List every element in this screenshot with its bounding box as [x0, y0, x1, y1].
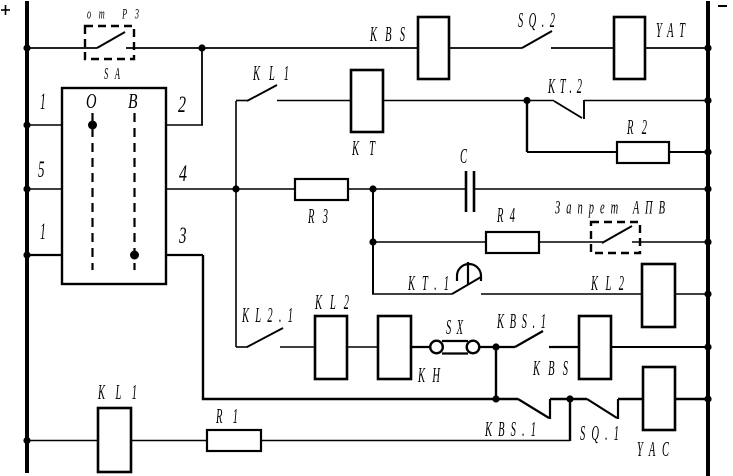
- wire rail4 to R4: [373, 241, 486, 243]
- wire KBS.1 to SQ.1: [550, 398, 587, 400]
- wire R2 to right bus: [669, 151, 707, 153]
- wire rail8 bus to KL1 coil: [29, 440, 98, 442]
- node rail1/right bus: [704, 44, 711, 51]
- wire R1 to riser x570: [261, 440, 570, 442]
- node rail7 x496: [492, 395, 499, 402]
- node R2/right bus: [704, 148, 711, 155]
- relay coil KBS: [579, 316, 611, 379]
- svg-text:2: 2: [178, 92, 186, 117]
- node rail5/right bus: [704, 290, 711, 297]
- node terminal1/left bus: [23, 121, 30, 128]
- wire rail1 SQ.2 to YAT: [551, 47, 614, 49]
- wire SQ.1 to YAC: [618, 398, 643, 400]
- plus terminal label: [1, 5, 10, 15]
- node rail7/right bus: [704, 395, 711, 402]
- wire terminal3 drop x203: [202, 255, 204, 399]
- wire drop x496 rail6 to rail7: [495, 347, 497, 399]
- switch "от Р3" dashed box: [85, 26, 134, 59]
- wire R2 branch drop x527: [526, 101, 528, 153]
- minus terminal label: [718, 5, 727, 7]
- svg-text:YAC: YAC: [637, 437, 670, 461]
- svg-text:1: 1: [40, 219, 46, 244]
- node rail1/left bus: [23, 44, 30, 51]
- wire rail3 SA4 to R3: [166, 188, 295, 190]
- svg-text:О: О: [86, 89, 97, 113]
- SA contact dot O: [88, 121, 97, 130]
- relay coil KL1: [98, 408, 131, 472]
- contact KL2.1: [236, 328, 283, 347]
- node terminal5/left bus: [23, 185, 30, 192]
- svg-text:KL2: KL2: [590, 271, 624, 295]
- relay coil KBS (top): [418, 17, 449, 79]
- relay coil KH: [378, 316, 411, 379]
- wire C to right bus: [474, 188, 707, 190]
- svg-text:KT.2: KT.2: [547, 74, 582, 98]
- relay coil KL2 (left): [315, 316, 347, 379]
- node rail4 branch: [369, 238, 376, 245]
- svg-text:1: 1: [40, 89, 46, 114]
- resistor R4: [486, 232, 539, 253]
- wire KL2.1 to KL2 coil: [280, 346, 315, 348]
- wire SA terminal 5: [29, 188, 62, 190]
- switch SA box: [62, 88, 166, 284]
- node lower terminal1/left bus: [23, 251, 30, 258]
- wire rail7 left segment: [202, 398, 518, 400]
- wire KBS to right bus: [611, 346, 707, 348]
- wire SA terminal 2: [166, 124, 203, 126]
- wire SA terminal 3: [166, 254, 203, 256]
- wire SA terminal 1 top: [27, 124, 62, 126]
- wire KT.2 to right bus: [584, 100, 707, 102]
- wire rail1 mid segment: [126, 47, 418, 49]
- contact SQ.2 blade: [522, 31, 552, 48]
- svg-text:KL2: KL2: [314, 290, 349, 314]
- electromagnet coil YAC: [643, 367, 675, 430]
- wire KT.1 to KL2 coil: [481, 293, 642, 295]
- left bus (+): [25, 1, 29, 473]
- wire riser x570 rail8 to rail7: [569, 399, 571, 441]
- node KT.2 branch: [523, 97, 530, 104]
- wire R2 left: [527, 151, 617, 153]
- relay coil KT: [351, 70, 383, 132]
- wire R4 to Запрет АПВ: [539, 241, 603, 243]
- node rail8/left bus: [23, 437, 30, 444]
- contact SQ.1 (NC): [587, 399, 618, 419]
- svg-text:4: 4: [179, 161, 187, 186]
- wire KL1 to KT coil: [277, 100, 351, 102]
- connector SX: [430, 341, 479, 354]
- node rail6 x496: [492, 343, 499, 350]
- wire YAC to right bus: [675, 398, 707, 400]
- wire KL1 riser x236: [235, 101, 237, 347]
- svg-text:KBS: KBS: [532, 356, 568, 380]
- wire drop x373 rail3 to rail5: [372, 189, 374, 294]
- node rail3 x236: [232, 185, 239, 192]
- wire KT to KT.2: [383, 100, 554, 102]
- wire terminal2 riser x202: [201, 48, 203, 125]
- wire SX to junction: [480, 346, 515, 348]
- wire SA terminal 1 bottom: [29, 254, 62, 256]
- SA position O dashed line: [91, 113, 93, 270]
- node rail1 x202 junction: [198, 44, 205, 51]
- wire Запрет АПВ to right bus: [632, 241, 707, 243]
- SA position B dashed line: [133, 113, 135, 270]
- contact KT.1 (time-delay): [452, 262, 481, 294]
- wire rail1 YAT to right bus: [645, 47, 707, 49]
- electromagnet coil YAT: [614, 17, 645, 79]
- relay coil KL2 (right): [642, 264, 675, 327]
- node rail4/right bus: [704, 238, 711, 245]
- capacitor C: [466, 171, 474, 212]
- node rail6/right bus: [704, 343, 711, 350]
- node rail3/right bus: [704, 185, 711, 192]
- node rail2/right bus: [704, 97, 711, 104]
- SA contact dot B: [130, 251, 139, 260]
- wire R3 to C: [348, 188, 466, 190]
- switch Запрет АПВ dashed box: [591, 222, 640, 253]
- wire KBS.1 to KBS coil: [549, 346, 579, 348]
- svg-text:YAT: YAT: [656, 18, 686, 42]
- wire KH to SX: [411, 346, 431, 348]
- resistor R1: [207, 430, 261, 451]
- node rail7 x570: [566, 395, 573, 402]
- svg-text:3: 3: [178, 223, 186, 248]
- resistor R2: [617, 142, 669, 163]
- wire rail5 left stub: [372, 293, 452, 295]
- svg-text:KL1: KL1: [252, 61, 289, 85]
- wire KL2 to KH: [347, 346, 378, 348]
- contact KT.2 (NC): [554, 100, 584, 119]
- svg-text:KBS: KBS: [369, 22, 405, 46]
- wire KL2 to right bus: [675, 293, 707, 295]
- contact KL1: [236, 85, 277, 101]
- wire rail1 left segment: [29, 47, 97, 49]
- node rail3 x373: [369, 185, 376, 192]
- svg-text:C: C: [460, 144, 468, 168]
- contact KBS.1 (NO): [515, 331, 543, 347]
- svg-text:5: 5: [38, 157, 45, 182]
- right bus (-): [706, 1, 710, 476]
- wire KL1 to R1: [131, 440, 207, 442]
- wire rail1 KBS to SQ.2: [449, 47, 522, 49]
- svg-text:В: В: [128, 89, 138, 113]
- resistor R3: [295, 179, 348, 200]
- contact KBS.1 lower (NC): [518, 399, 550, 419]
